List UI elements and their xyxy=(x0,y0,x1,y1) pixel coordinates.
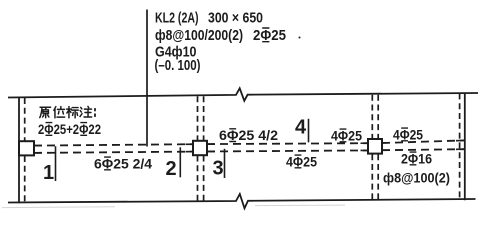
wire leader line from annotation to beam xyxy=(146,10,148,147)
section tick 4 xyxy=(308,119,310,143)
section tick 1 xyxy=(55,146,57,181)
wire beam bottom dashed line span 2 xyxy=(207,150,368,151)
wire solid stubs at square edges xyxy=(34,145,42,147)
wire left wall solid vertical xyxy=(18,97,20,203)
svg-text:4Φ25: 4Φ25 xyxy=(393,126,423,142)
svg-text:300 × 650: 300 × 650 xyxy=(208,10,263,27)
wire bottom slab edge line with break xyxy=(8,194,476,208)
hanzi yuan xyxy=(40,107,51,117)
wire left column dashed vertical xyxy=(24,98,26,141)
wire top slab edge line with break xyxy=(8,88,478,101)
svg-text:ф8@100/200(2): ф8@100/200(2) xyxy=(155,27,243,44)
wire column 3 dashed verticals xyxy=(371,95,373,139)
svg-text:(–0. 100): (–0. 100) xyxy=(155,57,201,74)
svg-text:KL2 (2A): KL2 (2A) xyxy=(155,10,199,27)
text KL2(2A) 300x650 xyxy=(155,10,287,75)
text yuan wei biao zhu (drawn strokes, no CJK font on renderer) xyxy=(40,106,95,117)
wire beam bottom dashed line span 1 xyxy=(34,152,193,153)
colon after biaozhu xyxy=(94,109,96,116)
svg-text:3: 3 xyxy=(212,158,223,180)
rebar grade symbol serif bars xyxy=(46,28,417,170)
svg-text:ф8@100(2): ф8@100(2) xyxy=(383,169,450,185)
section tick 3 xyxy=(224,149,226,178)
svg-text:2Φ25: 2Φ25 xyxy=(253,27,286,44)
wire beam top dashed line span 2 xyxy=(207,142,368,145)
wire column 2 dashed verticals xyxy=(197,96,199,140)
wire beam top dashed line span 1 xyxy=(34,144,193,145)
section tick 2 xyxy=(179,147,181,177)
scan shadow under bottom line xyxy=(2,205,345,208)
svg-text:4Φ25: 4Φ25 xyxy=(286,153,317,169)
small dot after 2phi25 xyxy=(299,37,301,39)
text 2phi25+2phi22 (below yuanwei biaozhu) xyxy=(38,121,450,186)
svg-text:1: 1 xyxy=(43,162,54,184)
column square 3 xyxy=(368,139,382,154)
svg-text:4: 4 xyxy=(295,117,307,139)
svg-text:2: 2 xyxy=(165,158,176,180)
svg-text:2Φ16: 2Φ16 xyxy=(401,150,432,166)
svg-text:4Φ25: 4Φ25 xyxy=(331,127,362,143)
hanzi wei xyxy=(54,107,65,118)
wire right wall dashed vertical xyxy=(459,93,461,200)
column square 2 xyxy=(193,141,207,155)
svg-text:6Φ25 2/4: 6Φ25 2/4 xyxy=(94,155,152,171)
column square 1 xyxy=(19,141,34,155)
svg-text:6Φ25 4/2: 6Φ25 4/2 xyxy=(219,127,278,143)
wire right wall solid vertical xyxy=(464,93,466,200)
hanzi zhu xyxy=(80,106,92,117)
wire beam bottom dashed line span 3 xyxy=(382,149,465,150)
wire beam top dashed line span 3 xyxy=(382,140,465,143)
section number 1 xyxy=(43,117,307,185)
hanzi biao xyxy=(67,107,79,118)
